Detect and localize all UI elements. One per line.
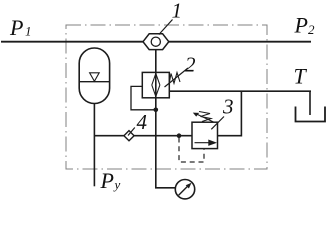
accumulator body: [79, 48, 109, 103]
svg-text:1: 1: [25, 24, 32, 39]
wire main vertical to gauge: [156, 50, 176, 188]
svg-text:1: 1: [172, 0, 183, 23]
svg-text:P: P: [294, 13, 308, 38]
svg-text:3: 3: [222, 95, 234, 119]
wire P1 line: [1, 41, 143, 43]
junction dot B: [177, 133, 182, 138]
shut-off valve U1 ball: [151, 37, 160, 46]
pressure gauge: [175, 180, 194, 199]
wire valve 3 to T line: [218, 91, 242, 136]
accumulator divider: [79, 81, 109, 83]
reducing valve 3 body: [192, 122, 218, 148]
enclosure dash-dot boundary: [66, 25, 267, 169]
relief valve 2 pilot line: [131, 86, 156, 109]
wire T line: [169, 90, 311, 92]
svg-text:2: 2: [308, 22, 315, 37]
shut-off valve U1 hexagon body: [143, 34, 169, 50]
relief valve 2 down arrow: [152, 85, 156, 97]
accumulator gas triangle: [90, 73, 100, 82]
reducing valve 3 adjust arrow: [197, 114, 214, 122]
junction dot A: [154, 108, 159, 113]
tank symbol: [296, 107, 326, 122]
leader line 2: [165, 68, 189, 87]
relief valve 2 body: [142, 72, 169, 97]
relief valve 2 spring: [169, 73, 180, 85]
relief valve 2 up arrow: [152, 74, 156, 86]
svg-text:2: 2: [185, 53, 196, 77]
orifice 4 diamond: [124, 131, 134, 141]
leader line 4: [128, 128, 135, 136]
svg-text:P: P: [100, 168, 114, 193]
svg-text:4: 4: [137, 110, 148, 134]
svg-text:P: P: [9, 15, 23, 40]
leader line 1: [159, 20, 173, 35]
wire tank drop: [309, 91, 311, 115]
svg-text:T: T: [294, 64, 308, 89]
leader line 3: [211, 117, 224, 130]
wire accumulator branch to valve 3: [94, 135, 192, 137]
svg-text:у: у: [113, 177, 121, 192]
reducing valve 3 flow arrow: [195, 142, 215, 144]
wire accumulator to Py: [93, 104, 95, 187]
reducing valve 3 pilot dashed line: [179, 138, 204, 163]
wire P2 line: [169, 41, 311, 43]
reducing valve 3 spring: [199, 112, 211, 122]
